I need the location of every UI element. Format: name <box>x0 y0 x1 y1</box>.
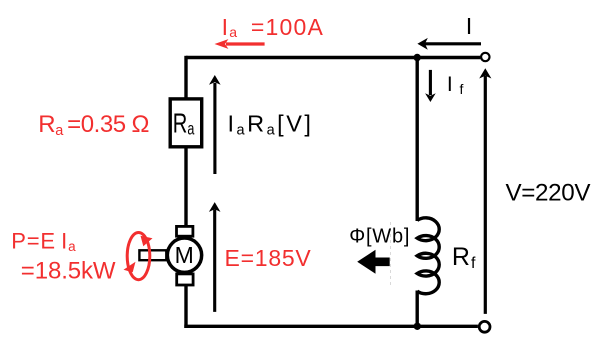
svg-text:I: I <box>466 13 473 39</box>
resistor Ra <box>170 99 202 147</box>
node junction bottom <box>414 323 421 330</box>
wire middle vertical lower <box>416 291 419 327</box>
svg-text:E=185V: E=185V <box>225 245 312 271</box>
flux arrow (bold black, leftward) <box>357 250 390 274</box>
arrow IaRa (black, upward) <box>209 75 221 174</box>
svg-text:Ra =0.35 Ω: Ra =0.35 Ω <box>38 111 149 139</box>
inductor Rf coil <box>417 218 439 294</box>
svg-text:M: M <box>175 242 194 268</box>
motor M <box>167 226 201 285</box>
arrow I (black, leftward) <box>417 38 481 50</box>
motor shaft <box>139 250 166 260</box>
terminal bottom right <box>479 321 490 332</box>
terminal top right <box>481 53 489 61</box>
wire bottom horizontal <box>184 325 478 328</box>
rotation arrow (red ellipse) <box>124 233 153 280</box>
wire top horizontal <box>186 56 480 59</box>
wire left vertical upper <box>184 56 187 99</box>
wire left vertical middle <box>184 147 187 226</box>
svg-text:P=E Ia: P=E Ia <box>11 228 76 254</box>
arrow E (black, upward) <box>209 202 221 312</box>
arrow Ia (red, leftward) <box>215 39 265 49</box>
svg-text:V=220V: V=220V <box>506 179 592 206</box>
arrow If (black, downward) <box>425 70 436 102</box>
svg-text:=18.5kW: =18.5kW <box>21 257 116 284</box>
wire right vertical with up arrow (V direction) <box>479 68 491 314</box>
node junction top <box>414 54 421 61</box>
wire left vertical lower <box>184 285 187 328</box>
svg-text:Φ[Wb]: Φ[Wb] <box>349 226 410 248</box>
wire middle vertical upper <box>416 58 419 222</box>
